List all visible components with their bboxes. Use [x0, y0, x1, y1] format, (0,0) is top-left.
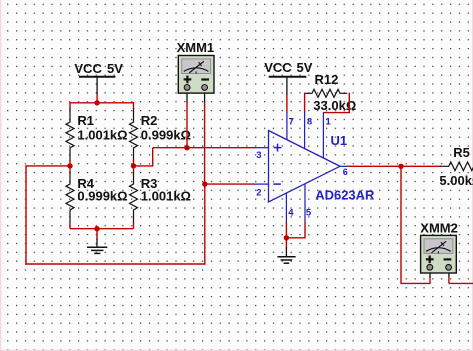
svg-text:8: 8	[307, 116, 312, 127]
wire pin 4 down	[285, 222, 287, 238]
wire left mid to left loop	[26, 165, 70, 167]
pin 8 stub	[304, 112, 306, 149]
svg-text:2: 2	[256, 188, 261, 199]
svg-text:5V: 5V	[107, 61, 123, 76]
wire pin 5 down	[286, 222, 305, 238]
wire R4 bottom	[69, 222, 71, 229]
pin 7 stub	[286, 112, 288, 140]
svg-text:R12: R12	[315, 72, 339, 87]
wire XMM1 left lead	[186, 91, 188, 148]
node XMM1 minus junction	[202, 181, 207, 186]
multimeter XMM1	[177, 40, 215, 93]
svg-text:0.999kΩ: 0.999kΩ	[141, 127, 191, 142]
svg-text:1.001kΩ: 1.001kΩ	[141, 189, 191, 204]
node output junction	[398, 164, 403, 169]
wire pin 8 to R12	[304, 93, 306, 113]
pin 4 stub	[285, 193, 287, 223]
svg-text:AD623AR: AD623AR	[315, 187, 375, 202]
power VCC2 label	[264, 60, 313, 75]
resistor R4	[66, 172, 128, 223]
wire XMM1 right lead	[204, 91, 206, 185]
svg-text:5V: 5V	[297, 60, 313, 75]
wire to ground 2	[285, 238, 287, 249]
svg-text:R1: R1	[77, 113, 94, 128]
node XMM1 plus junction	[184, 145, 189, 150]
resistor R1	[66, 108, 128, 161]
svg-text:3: 3	[256, 150, 261, 161]
wire XMM2 right lead	[448, 271, 450, 283]
wire R2 bottom	[133, 160, 135, 166]
resistor R5	[439, 145, 473, 188]
wire output pin 6 to R5	[348, 165, 441, 167]
svg-text:VCC: VCC	[264, 60, 292, 75]
wire right mid step	[134, 148, 153, 166]
wire XMM2 right to edge	[449, 282, 473, 284]
wire output branch down	[401, 166, 430, 283]
pin 6 stub	[340, 165, 349, 167]
wire right mid to R3	[133, 166, 135, 173]
power VCC1 symbol	[79, 77, 116, 95]
svg-text:6: 6	[343, 167, 348, 177]
svg-text:5: 5	[306, 207, 312, 218]
svg-text:VCC: VCC	[74, 61, 102, 76]
wire loop up to inverting node	[204, 184, 206, 265]
op-amp U1	[269, 131, 376, 203]
pin 3 stub	[254, 147, 269, 149]
wire VCC1 to bridge top	[96, 94, 98, 103]
wire top wire to R1	[69, 102, 71, 109]
wire bottom loop	[25, 263, 205, 265]
wire to ground 1	[96, 229, 98, 240]
wire top wire to R2	[133, 102, 135, 109]
wire bridge bottom	[70, 228, 134, 230]
svg-text:4: 4	[288, 207, 294, 218]
svg-text:U1: U1	[331, 133, 348, 148]
power VCC1 label	[74, 61, 123, 76]
node op-amp ground junction	[284, 235, 289, 240]
wire R1 bottom	[69, 160, 71, 166]
svg-text:XMM2: XMM2	[420, 220, 458, 235]
ground GND2	[277, 248, 295, 264]
wire bridge top	[70, 102, 134, 104]
wire to op-amp pin 3	[153, 147, 255, 149]
svg-text:1.001kΩ: 1.001kΩ	[77, 127, 127, 142]
wire VCC2 to pin 7	[286, 95, 288, 113]
svg-text:0.999kΩ: 0.999kΩ	[77, 189, 127, 204]
wire left loop down	[25, 165, 27, 265]
svg-text:5.00kΩ: 5.00kΩ	[439, 173, 473, 188]
pin 1 stub	[322, 112, 324, 158]
ground GND1	[87, 239, 107, 254]
svg-text:XMM1: XMM1	[177, 40, 215, 55]
wire left mid to R4	[69, 166, 71, 173]
pin 5 stub	[304, 184, 306, 223]
power VCC2 symbol	[269, 77, 307, 95]
svg-text:R5: R5	[453, 145, 470, 160]
wire to op-amp pin 2	[205, 183, 255, 185]
node bridge bottom junction	[94, 226, 99, 231]
node bridge right mid	[131, 163, 136, 168]
node bridge left mid	[67, 163, 72, 168]
svg-text:1: 1	[326, 116, 332, 127]
wire R12 to pin 1	[323, 93, 349, 113]
node bridge top junction	[94, 100, 99, 105]
svg-text:7: 7	[289, 116, 294, 127]
wire R3 bottom	[133, 222, 135, 229]
svg-text:R2: R2	[141, 113, 158, 128]
resistor R12	[305, 72, 357, 113]
resistor R2	[130, 108, 191, 161]
resistor R3	[130, 172, 191, 223]
pin 2 stub	[254, 183, 269, 185]
multimeter XMM2	[420, 220, 458, 273]
wire XMM2 left lead	[429, 271, 431, 284]
